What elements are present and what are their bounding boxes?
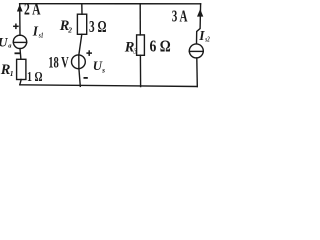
- current arrow 2 A on left branch: [17, 4, 23, 11]
- svg-text:18 V: 18 V: [48, 54, 69, 71]
- svg-text:s2: s2: [205, 35, 210, 44]
- label R3: [124, 39, 138, 55]
- svg-text:3 Ω: 3 Ω: [89, 17, 107, 36]
- resistor R3: [137, 35, 145, 55]
- current source Is2 (circle with horizontal bar): [189, 44, 203, 58]
- minus sign of Ua: [15, 52, 22, 54]
- label Ua: [0, 35, 12, 49]
- label Us: [93, 59, 105, 74]
- wire: left branch top segment: [19, 4, 21, 36]
- resistor R2: [77, 14, 86, 34]
- svg-text:U: U: [0, 35, 8, 49]
- wire: right branch, Is2 to bottom corner: [196, 58, 199, 87]
- svg-text:1 Ω: 1 Ω: [27, 69, 43, 84]
- label Is2: [198, 28, 210, 44]
- svg-text:s: s: [101, 65, 105, 74]
- current source Is1 (circle with horizontal bar): [13, 35, 26, 48]
- wire: R3 branch top stub: [139, 4, 141, 35]
- resistor R1: [17, 59, 26, 79]
- plus sign of Ua: [13, 24, 19, 30]
- svg-text:I: I: [32, 24, 39, 39]
- label R2: [59, 18, 73, 34]
- svg-text:3: 3: [133, 46, 138, 55]
- wire: middle branch, Us to bottom: [79, 68, 80, 86]
- wire: middle branch, R2 to Us: [79, 34, 82, 55]
- wire: middle branch stub top to R2: [81, 4, 83, 15]
- label Is1: [32, 24, 44, 40]
- svg-text:I: I: [198, 28, 205, 43]
- label R1: [0, 62, 14, 78]
- voltage source Us (circle with vertical lead through): [72, 55, 86, 69]
- svg-text:2: 2: [67, 25, 72, 34]
- svg-text:s1: s1: [38, 30, 44, 39]
- wire: right branch top segment: [197, 4, 201, 44]
- svg-text:2 A: 2 A: [24, 0, 41, 19]
- plus sign of Us: [86, 50, 92, 56]
- wire: bottom horizontal: [20, 85, 198, 87]
- svg-text:3 A: 3 A: [172, 7, 188, 26]
- svg-text:6 Ω: 6 Ω: [150, 36, 171, 55]
- minus sign of Us: [84, 77, 88, 79]
- wire: top horizontal: [20, 3, 201, 5]
- wire: R3 branch, R3 to bottom: [139, 55, 141, 86]
- current arrow 3 A on right branch: [197, 9, 203, 17]
- svg-text:1: 1: [10, 69, 14, 78]
- wire: left branch, Is1 to R1: [19, 49, 22, 60]
- wire: left branch, R1 to bottom corner: [20, 80, 21, 85]
